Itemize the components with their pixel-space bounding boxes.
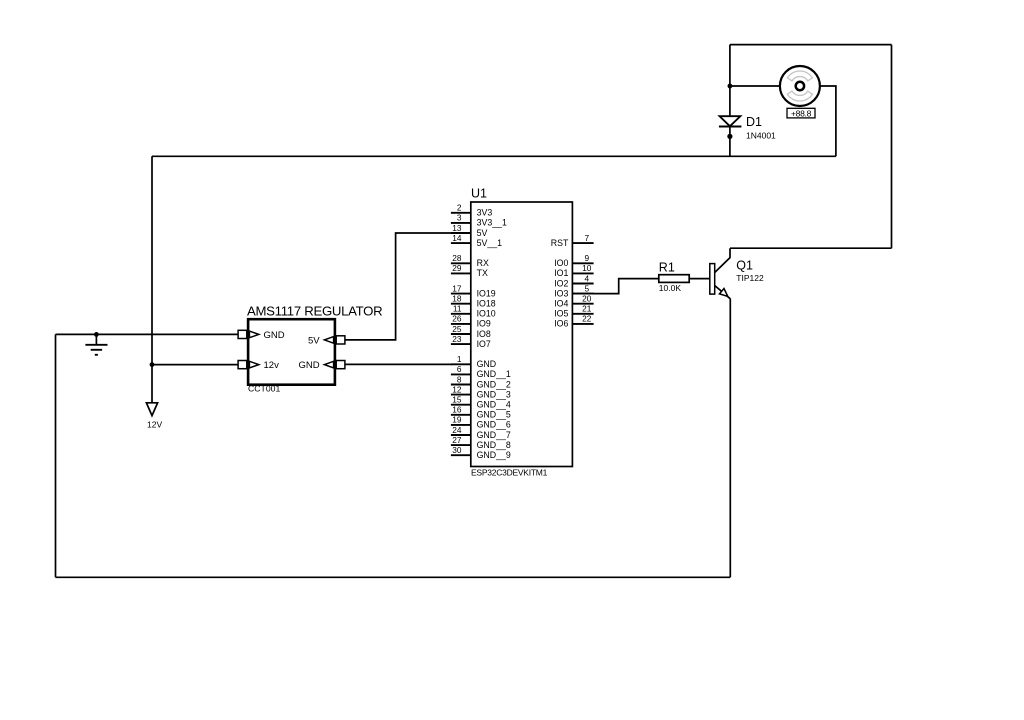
- svg-text:23: 23: [452, 334, 462, 344]
- svg-text:D1: D1: [746, 115, 762, 129]
- svg-text:4: 4: [584, 273, 589, 283]
- svg-text:5V: 5V: [308, 335, 320, 346]
- pin 1 GND (left): [451, 354, 496, 369]
- pin GND left of regulator: [238, 330, 285, 341]
- wire 12v pin: [152, 364, 238, 366]
- pin 23 IO7 (left): [451, 334, 491, 349]
- node junction dot 12V: [150, 362, 155, 367]
- svg-text:IO1: IO1: [554, 268, 568, 278]
- transistor Q1 emitter arrow: [719, 289, 727, 297]
- pin 29 TX (left): [451, 263, 488, 278]
- pin 19 GND__6 (left): [451, 415, 511, 430]
- svg-text:20: 20: [582, 294, 592, 304]
- svg-text:27: 27: [452, 435, 462, 445]
- svg-text:11: 11: [453, 304, 462, 314]
- wire IO3 to R1: [572, 279, 658, 294]
- svg-text:Q1: Q1: [736, 259, 753, 273]
- wire regulator GND to chip GND: [345, 363, 452, 365]
- op chip U1 ESP32 box: [471, 202, 573, 467]
- pin 12 GND__3 (left): [451, 384, 511, 399]
- svg-text:IO3: IO3: [554, 288, 568, 298]
- pin 9 IO0 (right): [554, 253, 593, 268]
- svg-text:GND__6: GND__6: [477, 420, 511, 430]
- svg-text:3V3__1: 3V3__1: [477, 218, 507, 228]
- wire D1 anode vertical: [729, 45, 731, 117]
- pin 13 5V (left): [451, 223, 488, 238]
- svg-text:GND__2: GND__2: [477, 379, 511, 389]
- svg-text:19: 19: [452, 415, 462, 425]
- pin 10 IO1 (right): [554, 263, 593, 278]
- motor M1: [780, 66, 820, 106]
- wire bottom rail: [56, 576, 731, 578]
- wire motor left: [730, 85, 780, 87]
- wire emitter vertical: [729, 299, 731, 578]
- pin 4 IO2 (right): [554, 273, 593, 288]
- ground: [85, 334, 107, 354]
- svg-text:5V__1: 5V__1: [477, 238, 503, 248]
- wire D1 cathode vertical: [729, 126, 731, 156]
- pin 26 IO9 (left): [451, 314, 491, 329]
- pin 5V right of regulator: [308, 335, 345, 346]
- node junction dot ground: [94, 332, 99, 337]
- svg-text:12: 12: [452, 384, 462, 394]
- svg-text:17: 17: [452, 283, 462, 293]
- pin 22 IO6 (right): [554, 314, 593, 329]
- svg-text:IO5: IO5: [554, 309, 568, 319]
- wire R1 to base: [689, 278, 710, 280]
- pin 18 IO18 (left): [451, 294, 496, 309]
- pin 11 IO10 (left): [451, 304, 496, 319]
- svg-text:TIP122: TIP122: [736, 273, 764, 283]
- svg-text:IO7: IO7: [477, 339, 491, 349]
- pin 8 GND__2 (left): [451, 374, 511, 389]
- svg-text:25: 25: [452, 324, 462, 334]
- svg-text:24: 24: [452, 425, 462, 435]
- wire ground to regulator GND: [56, 333, 239, 335]
- svg-text:GND: GND: [298, 360, 319, 371]
- wire long rail: [152, 155, 836, 157]
- svg-text:12v: 12v: [264, 360, 280, 371]
- pin 16 GND__5 (left): [451, 405, 511, 420]
- svg-text:RX: RX: [477, 258, 489, 268]
- svg-text:10.0K: 10.0K: [659, 283, 682, 293]
- svg-text:28: 28: [452, 253, 462, 263]
- pin 21 IO5 (right): [554, 304, 593, 319]
- svg-text:ESP32C3DEVKITM1: ESP32C3DEVKITM1: [471, 468, 548, 478]
- svg-text:6: 6: [457, 364, 462, 374]
- svg-text:16: 16: [452, 405, 462, 415]
- diode D1: [719, 116, 742, 126]
- svg-text:IO0: IO0: [554, 258, 568, 268]
- svg-text:IO19: IO19: [477, 288, 496, 298]
- power arrow 12V: [146, 403, 162, 430]
- wire motor right: [820, 86, 836, 156]
- svg-text:CCT001: CCT001: [248, 384, 281, 394]
- pin 27 GND__8 (left): [451, 435, 511, 450]
- svg-text:GND: GND: [264, 330, 285, 341]
- svg-text:R1: R1: [659, 260, 675, 274]
- resistor R1: [659, 275, 689, 283]
- pin 20 IO4 (right): [554, 294, 593, 309]
- pin 15 GND__4 (left): [451, 395, 511, 410]
- svg-text:IO18: IO18: [477, 299, 496, 309]
- svg-text:22: 22: [582, 314, 592, 324]
- svg-text:GND__3: GND__3: [477, 389, 511, 399]
- wire 5V to chip: [345, 233, 452, 340]
- svg-text:GND: GND: [477, 359, 497, 369]
- svg-text:2: 2: [457, 203, 462, 213]
- node junction dot D1 anode / motor: [728, 84, 733, 89]
- svg-text:21: 21: [582, 304, 592, 314]
- pin 14 5V__1 (left): [451, 233, 502, 248]
- svg-text:IO9: IO9: [477, 319, 491, 329]
- pin 30 GND__9 (left): [451, 445, 511, 460]
- pin 12v left of regulator: [238, 360, 279, 371]
- svg-text:14: 14: [452, 233, 462, 243]
- wire collector diagonal: [715, 248, 730, 272]
- wire top rail: [730, 44, 892, 46]
- pin 7 RST (right): [551, 233, 594, 248]
- wire right vertical: [891, 45, 893, 249]
- node junction dot D1 cathode: [727, 134, 732, 139]
- regulator U2 AMS1117 box: [248, 319, 335, 385]
- svg-text:U1: U1: [471, 187, 487, 201]
- svg-text:GND__8: GND__8: [477, 440, 511, 450]
- pin 2 3V3 (left): [451, 203, 492, 218]
- wire left loop vertical: [55, 334, 57, 577]
- pin 3 3V3__1 (left): [451, 213, 507, 228]
- svg-text:7: 7: [584, 233, 589, 243]
- svg-text:26: 26: [452, 314, 462, 324]
- svg-text:GND__7: GND__7: [477, 430, 511, 440]
- transistor Q1 base bar: [710, 264, 715, 295]
- svg-text:8: 8: [457, 374, 462, 384]
- svg-text:3V3: 3V3: [477, 208, 493, 218]
- pin 5 IO3 (right): [554, 283, 593, 298]
- svg-text:15: 15: [452, 395, 462, 405]
- svg-text:IO6: IO6: [554, 319, 568, 329]
- svg-text:AMS1117 REGULATOR: AMS1117 REGULATOR: [247, 303, 382, 318]
- pin 28 RX (left): [451, 253, 489, 268]
- svg-text:18: 18: [452, 294, 462, 304]
- svg-text:+88.8: +88.8: [791, 109, 812, 119]
- pin GND right of regulator: [298, 360, 344, 371]
- wire collector horizontal: [730, 247, 892, 249]
- svg-text:GND__5: GND__5: [477, 410, 511, 420]
- pin 24 GND__7 (left): [451, 425, 511, 440]
- svg-text:5: 5: [584, 283, 589, 293]
- svg-text:1N4001: 1N4001: [746, 131, 776, 141]
- svg-text:TX: TX: [477, 268, 488, 278]
- pin 25 IO8 (left): [451, 324, 491, 339]
- svg-text:IO10: IO10: [477, 309, 496, 319]
- svg-text:10: 10: [582, 263, 592, 273]
- svg-text:9: 9: [584, 253, 589, 263]
- svg-text:1: 1: [457, 354, 462, 364]
- wire emitter diagonal: [715, 286, 731, 299]
- svg-text:GND__9: GND__9: [477, 450, 511, 460]
- pin 17 IO19 (left): [451, 283, 496, 298]
- svg-text:GND__4: GND__4: [477, 400, 511, 410]
- wire 12V vertical: [151, 156, 153, 403]
- svg-text:GND__1: GND__1: [477, 369, 511, 379]
- svg-text:12V: 12V: [147, 420, 162, 430]
- svg-text:13: 13: [452, 223, 462, 233]
- svg-text:3: 3: [457, 213, 462, 223]
- pin 6 GND__1 (left): [451, 364, 511, 379]
- svg-text:IO8: IO8: [477, 329, 491, 339]
- motor display +88.8: [787, 108, 815, 118]
- svg-text:RST: RST: [551, 238, 569, 248]
- svg-text:IO4: IO4: [554, 299, 568, 309]
- svg-text:29: 29: [452, 263, 462, 273]
- svg-text:IO2: IO2: [554, 278, 568, 288]
- svg-text:5V: 5V: [477, 228, 488, 238]
- svg-text:30: 30: [452, 445, 462, 455]
